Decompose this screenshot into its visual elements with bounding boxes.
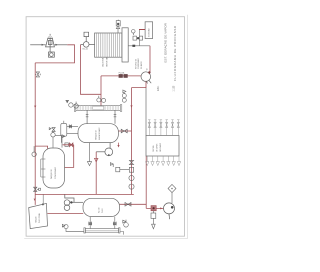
svg-text:VAPOR SAT.: VAPOR SAT. [106,56,109,67]
pipe: red into deaerator vessel right [118,130,131,132]
red control valve on burner line [151,206,156,211]
pipe: pump blowdown red [81,45,102,95]
pipe: red riser to blower [149,46,151,72]
svg-text:DISTRIB.: DISTRIB. [153,145,155,152]
arrow on tower line left [42,44,45,46]
pipe: red feed to burner pump [146,207,163,209]
svg-text:TANQUE DE: TANQUE DE [95,129,98,140]
blower / fan VE-01 [141,72,151,84]
svg-text:CONDENSADO: CONDENSADO [54,166,57,179]
drain stem and triangle below [152,218,156,228]
cooling tower TR-01 [46,34,55,47]
deaerator spray bar [74,105,122,112]
drawing frame [26,17,184,237]
valve on vessel outlet [125,203,131,207]
pipe: economizer red inlet [139,29,145,31]
arrow into oil tank [34,199,36,201]
trap assembly on riser x=133.8 [116,160,134,189]
safety relief valve on boiler top [116,20,120,33]
burner pump [164,203,175,219]
svg-text:ÓLEO: ÓLEO [101,208,104,213]
valve on deaerator inlet [121,129,127,133]
svg-text:1:125: 1:125 [173,85,175,91]
actuator square below valve [151,213,156,218]
deaerator vessel [78,124,118,143]
svg-text:ÁGUA DESAER.: ÁGUA DESAER. [98,127,101,140]
instrument bottom-right [123,220,129,228]
pipe: branch to tank area [35,146,47,149]
valve block B on cross line [124,74,128,78]
feedwater control valve (two seats + actuator dot) [133,36,137,40]
transfer pumps P-2A/B (stacked) [64,194,83,210]
heater tube below vessel [84,217,124,235]
valve V3 on left riser (lower, above oil tank) [34,187,41,191]
svg-text:ESC.: ESC. [158,85,160,91]
condensate tank [43,148,65,188]
arrow down on riser [130,105,132,107]
sheet outer edge right [186,15,188,239]
instrument bottom-left [62,224,84,231]
pipe: vessel outlet right [120,203,147,205]
svg-text:ECONOMIZ.: ECONOMIZ. [149,27,151,37]
boiler furnace (hatched) [95,33,122,57]
red valve by square [70,143,73,147]
pipe: left main red riser [34,63,36,205]
vent stub below deaerator [87,143,91,166]
instrument pair at blowdown corner [97,96,106,103]
pipe: tower return loop (red) [35,45,74,63]
bar connectors to vessel [86,110,117,123]
pipe: red fuel riser right (below header box) [145,156,147,208]
header top nozzle 1 [148,120,150,136]
valve V1 on left riser (upper) [35,72,40,77]
svg-text:FLUXOGRAMA DE PROCESSO: FLUXOGRAMA DE PROCESSO [173,25,177,81]
instruments right of bar [122,90,126,102]
svg-text:CALDEIRA: CALDEIRA [102,57,105,67]
header top nozzle 3 [160,120,162,136]
pipe: bottom red main [35,193,134,195]
header top nozzle 6 [177,120,179,136]
svg-text:TANQUE DE: TANQUE DE [50,168,53,179]
tower basin pump [49,47,55,57]
pipe: BFP discharge drop [95,152,97,195]
svg-text:EST. GERAÇÃO DE VAPOR: EST. GERAÇÃO DE VAPOR [163,22,168,62]
svg-text:FV-01A: FV-01A [119,71,126,74]
red drain tick at vessel right [118,143,120,145]
instrument flag above bar left [66,100,78,108]
header bottom outlet 7 [177,156,180,166]
instrument on branch [32,146,36,156]
svg-text:VE: VE [146,68,148,70]
header bottom outlet 3 [156,156,159,166]
pipe: red drop from fan bottom [132,81,147,87]
pipe: red condensate link to tank [63,145,74,168]
fuel oil vessel [83,198,120,216]
svg-text:RETORNO DE: RETORNO DE [136,59,138,69]
pipe: red deaerator riser x=133.8 [131,88,133,195]
square instrument below pot [65,143,68,147]
header bottom outlet 2 [151,156,154,166]
tank top valve and instrument [49,128,61,148]
header bottom outlet 1 [146,156,149,166]
steam drum [122,28,128,62]
header top nozzle 5 [171,120,173,136]
arrow on tower line right [56,44,59,46]
boiler feed pump BC-01 [81,32,95,47]
dark valve blob on steam line [132,45,135,47]
pipe: fuel suction from oil tank [47,213,83,215]
valve block A on cross line [119,74,123,78]
svg-text:TQ. DE: TQ. DE [99,207,101,213]
flag near trap square [110,163,113,167]
pipe: tank vent line [42,194,44,204]
boiler feed pump below deaerator [96,143,113,156]
steam header box [146,136,179,157]
arrow down on left riser [34,106,36,108]
level pot left of deaerator [61,121,78,136]
economizer box [145,22,153,39]
diamond above pump [168,184,176,192]
pipe: red riser to deaerator bar [100,76,102,106]
header bottom outlet 5 [167,156,170,166]
flag instrument at tank top right [62,135,65,148]
sheet outer edge bottom [24,238,188,240]
flag instrument right of drum [132,30,136,36]
svg-text:BC-01: BC-01 [83,48,88,50]
pipe: cooling tower supply (dark) [30,44,67,46]
oil tank (parallelogram) [29,203,48,228]
header bottom outlet 6 [172,156,175,166]
tank level taps [41,159,46,177]
pipe: blower to header (gray steam line) [145,88,147,136]
header top nozzle 4 [166,120,168,136]
pipe: red cross line to blower [101,75,141,77]
header bottom outlet 4 [161,156,164,166]
open arrow on BFP drop [94,158,98,162]
pipe: steam line from drum [128,45,150,47]
header top nozzle 2 [154,120,156,136]
pipe: valve drop line [139,30,141,46]
